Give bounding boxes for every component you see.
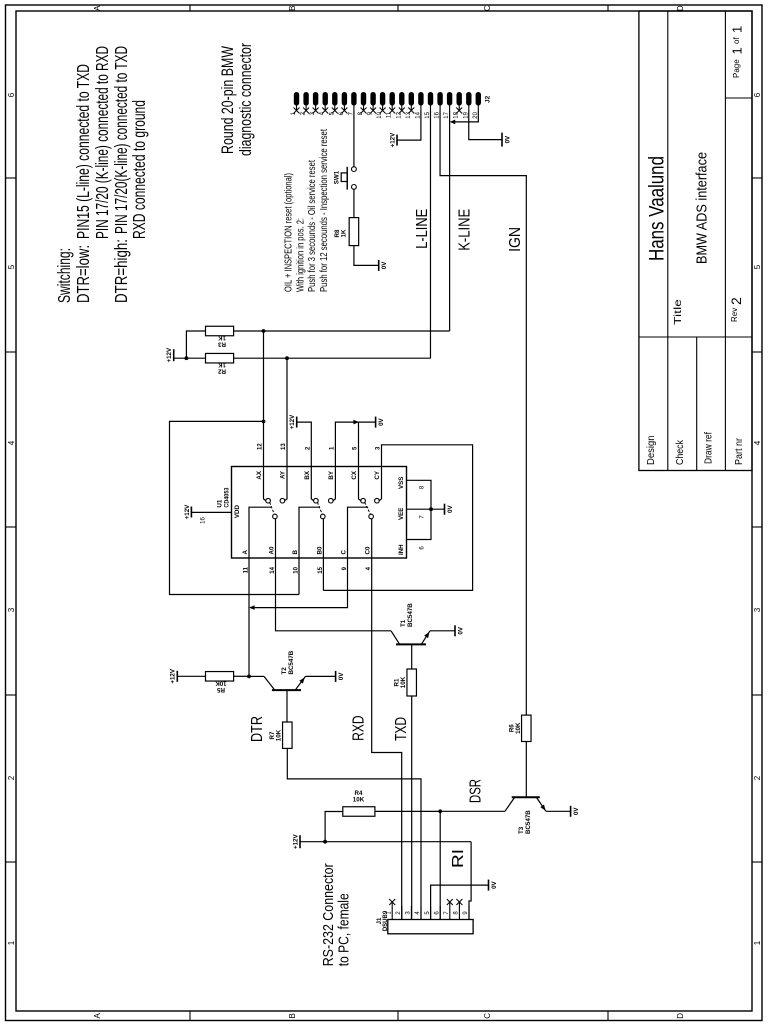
analog switch c select wire	[348, 507, 369, 558]
svg-text:10K: 10K	[215, 679, 227, 686]
svg-text:L-LINE: L-LINE	[414, 209, 431, 249]
svg-text:OIL + INSPECTION reset (option: OIL + INSPECTION reset (optional)	[283, 173, 295, 292]
svg-text:Hans Vaalund: Hans Vaalund	[645, 156, 669, 261]
wire DSR from DSUB pin 6	[439, 811, 441, 919]
resistor R2 1K (L-line pullup)	[206, 353, 234, 363]
analog switch a X contact	[266, 498, 271, 503]
svg-text:to PC, female: to PC, female	[336, 893, 353, 966]
wire J2 pin 20 to K-line junction	[454, 111, 478, 122]
connector J1 pin 9	[463, 906, 469, 920]
svg-text:2: 2	[753, 775, 762, 780]
analog switch b common contact	[321, 514, 326, 519]
svg-text:Part nr: Part nr	[734, 437, 745, 465]
resistor R5 10K	[206, 672, 234, 682]
svg-text:3: 3	[7, 607, 16, 612]
svg-text:Push for 3 secounds - Oil serv: Push for 3 secounds - Oil service reset	[306, 160, 318, 292]
svg-text:0V: 0V	[457, 626, 464, 634]
svg-text:PIN 17/20 (K-line) connected t: PIN 17/20 (K-line) connected to RXD	[92, 46, 112, 239]
svg-text:BY: BY	[328, 470, 335, 479]
svg-text:3: 3	[406, 911, 412, 915]
analog switch b Y contact	[329, 498, 334, 503]
svg-text:VSS: VSS	[398, 477, 405, 489]
svg-text:diagnostic connector: diagnostic connector	[236, 43, 255, 156]
wire C0 common RXD	[372, 558, 402, 920]
junction dot AY / L-line vertical	[285, 356, 289, 360]
wire BX to +12V	[297, 422, 312, 466]
svg-text:DSR: DSR	[468, 779, 485, 803]
wire +12V branch to R4	[325, 812, 343, 842]
junction arrow CX onto BY-ground wire	[353, 420, 359, 425]
wire TXD from R1 to DSUB pin 3	[411, 696, 413, 920]
svg-text:Switching:: Switching:	[54, 248, 74, 303]
svg-text:16: 16	[201, 517, 207, 524]
connector J1 pin 8	[454, 899, 463, 920]
wire INH pin 6 to ground net	[407, 509, 432, 539]
wire SW1 to R8	[353, 189, 355, 217]
junction arrow select C onto select A wire	[249, 605, 255, 610]
wire J2 pin 19 to ground	[469, 111, 502, 140]
svg-text:TXD: TXD	[393, 717, 410, 741]
svg-text:+12V: +12V	[184, 504, 191, 519]
switch SW1 contact right	[352, 167, 357, 172]
analog switch b X contact	[314, 498, 319, 503]
svg-text:CD4053: CD4053	[224, 487, 231, 507]
svg-text:BX: BX	[304, 470, 311, 479]
svg-text:2: 2	[396, 911, 402, 915]
wire K-LINE from J2 pin 17	[449, 111, 451, 332]
analog switch a common contact	[273, 514, 278, 519]
analog switch c X contact	[361, 498, 366, 503]
svg-text:B: B	[288, 1013, 297, 1018]
analog switch c X contact wire	[359, 467, 361, 501]
svg-text:2: 2	[306, 446, 312, 450]
junction dot T2 collector node	[247, 675, 251, 679]
ground 0V at DSUB pin 5	[488, 880, 490, 891]
svg-text:+12V: +12V	[289, 414, 296, 429]
svg-text:CY: CY	[374, 470, 381, 479]
connector J2 pin 4	[320, 92, 329, 115]
svg-text:0V: 0V	[491, 880, 498, 888]
svg-text:4: 4	[415, 911, 421, 915]
connector J1 pin 2	[396, 906, 402, 920]
junction dot R2/R3 feed	[185, 356, 189, 360]
svg-text:DTR: DTR	[249, 716, 266, 742]
resistor R4 10K (DSR pullup)	[343, 807, 375, 817]
svg-text:+12V: +12V	[292, 834, 299, 849]
svg-text:Round 20-pin BMW: Round 20-pin BMW	[218, 46, 237, 154]
junction dot AX / K-line vertical	[262, 329, 266, 333]
ground 0V at T2 emitter	[335, 671, 337, 682]
svg-text:Draw ref: Draw ref	[704, 432, 715, 464]
connector J2 pin 1	[291, 92, 300, 115]
junction dot AX / select-B loop	[262, 420, 266, 424]
svg-text:DTR=high:: DTR=high:	[111, 239, 131, 303]
svg-text:J2: J2	[485, 95, 492, 103]
svg-text:R4: R4	[355, 790, 363, 797]
svg-text:B: B	[288, 6, 297, 11]
transistor T1 BC547B	[396, 643, 426, 645]
ground 0V at T1 emitter	[454, 625, 456, 636]
svg-text:6: 6	[434, 911, 440, 915]
svg-text:Page: Page	[732, 59, 741, 78]
analog switch b Y contact wire	[333, 467, 335, 501]
svg-text:RS-232 Connector: RS-232 Connector	[320, 863, 337, 966]
wire DSUB pin 5 to ground	[431, 885, 489, 919]
svg-text:A: A	[93, 5, 102, 11]
svg-text:BC547B: BC547B	[288, 650, 295, 674]
wire VSS pin 8 to ground net	[407, 480, 432, 509]
wire T2 base to R7	[286, 690, 288, 722]
svg-text:A: A	[93, 1012, 102, 1018]
title block outline	[639, 11, 752, 471]
border zone ticks right edge	[189, 5, 191, 11]
pin 16 VDD wire to +12V	[191, 511, 231, 513]
wire +12V rail down to RI	[300, 841, 471, 843]
analog switch a X contact wire	[264, 467, 266, 501]
connector J2 pin 14	[415, 92, 423, 119]
svg-text:Rev: Rev	[730, 308, 739, 322]
connector J2 pin 3	[310, 92, 319, 115]
ground 0V at T3 emitter	[570, 806, 572, 817]
analog switch c common contact	[369, 514, 374, 519]
svg-text:K-LINE: K-LINE	[457, 209, 474, 251]
connector J1 pin 7	[444, 899, 453, 920]
title block row line 2	[724, 11, 726, 471]
connector J2 pin 19	[463, 92, 471, 119]
junction dot +12V / R4 branch	[323, 840, 327, 844]
transistor T3 BC547B	[512, 796, 540, 798]
svg-text:C: C	[483, 1013, 492, 1019]
wire select C to select A	[254, 558, 348, 608]
svg-text:PIN 17/20(K-line) connected to: PIN 17/20(K-line) connected to TXD	[111, 46, 131, 234]
connector J1 DSUB9 body	[388, 920, 473, 934]
svg-text:5: 5	[425, 911, 431, 915]
svg-text:3: 3	[376, 446, 382, 450]
title block row line 1	[667, 11, 669, 471]
svg-text:0V: 0V	[447, 505, 454, 513]
svg-text:D: D	[676, 5, 685, 11]
svg-text:4: 4	[753, 440, 762, 445]
svg-text:0V: 0V	[378, 417, 385, 425]
svg-text:4: 4	[7, 440, 16, 445]
svg-text:5: 5	[7, 264, 16, 269]
title block vertical divider	[639, 336, 752, 338]
connector J1 pin 1	[386, 899, 395, 920]
resistor R7 10K	[283, 722, 293, 748]
power +12V feeding R2 R3	[173, 349, 175, 361]
svg-text:1: 1	[386, 911, 392, 915]
svg-text:Push for 12 secounds - Inspect: Push for 12 secounds - Inspection servic…	[318, 129, 330, 292]
connector J2 pin 8	[358, 92, 367, 115]
wire R4 to DSR junction	[375, 810, 440, 812]
svg-text:1: 1	[7, 940, 16, 945]
svg-text:10K: 10K	[515, 722, 522, 734]
analog switch b X contact wire	[311, 467, 313, 501]
svg-text:U1: U1	[217, 499, 224, 508]
connector J2 pin 17	[444, 92, 452, 119]
svg-text:0V: 0V	[338, 672, 345, 680]
svg-text:6: 6	[420, 546, 426, 550]
connector J2 pin 9	[368, 92, 377, 115]
wire +12V to R5	[177, 675, 205, 677]
power +12V at J2 pin 14	[396, 135, 398, 146]
switch SW1 contact left	[352, 185, 357, 190]
svg-text:INH: INH	[398, 544, 405, 555]
junction dot DSR node	[438, 809, 442, 813]
connector J2 pin 20	[473, 92, 481, 119]
analog switch c common wire	[371, 519, 373, 558]
power +12V at VDD	[190, 507, 192, 518]
transistor T2 BC547B	[272, 689, 301, 691]
svg-text:Check: Check	[675, 439, 686, 465]
svg-text:IGN: IGN	[507, 227, 524, 252]
svg-text:A0: A0	[269, 546, 276, 554]
svg-text:AY: AY	[280, 470, 287, 479]
svg-text:VDD: VDD	[234, 505, 241, 519]
svg-text:of: of	[732, 37, 741, 44]
svg-text:+12V: +12V	[166, 347, 173, 362]
svg-text:BC547B: BC547B	[525, 810, 532, 834]
resistor R8 1K	[349, 218, 359, 246]
connector J2 pin 5	[329, 92, 338, 115]
svg-text:Design: Design	[646, 436, 657, 466]
svg-text:PIN15 (L-line) connected to TX: PIN15 (L-line) connected to TXD	[73, 64, 93, 239]
connector J2 pin 18	[454, 92, 463, 119]
svg-text:RXD connected to ground: RXD connected to ground	[129, 100, 149, 239]
svg-text:0V: 0V	[573, 807, 580, 815]
connector J1 pin 5	[425, 906, 431, 920]
svg-text:+12V: +12V	[170, 668, 177, 683]
wire CY to B0 loop	[323, 445, 472, 591]
wire RI to DSUB pin 9	[469, 842, 471, 920]
switch SW1 actuator	[346, 167, 348, 190]
svg-text:6: 6	[7, 92, 16, 97]
ground 0V at J2 pin 19	[501, 133, 503, 147]
analog switch b common wire	[322, 519, 324, 558]
svg-text:10K: 10K	[400, 676, 407, 688]
wire K-line pullup vertical	[234, 330, 450, 332]
wire select-B loop	[170, 421, 300, 594]
resistor R6 10K	[522, 715, 532, 741]
wire T1 base to R1	[411, 644, 413, 669]
op-amp U1 CD4053 body	[232, 467, 407, 559]
wire J2 pin 16 to IGN	[440, 111, 526, 716]
wire CX to ground net	[358, 422, 360, 466]
power +12V at BX	[296, 417, 298, 428]
connector J2 pin 7	[348, 92, 356, 115]
wire L-line pullup vertical	[234, 357, 431, 359]
svg-text:B0: B0	[316, 546, 323, 554]
svg-text:T1: T1	[400, 619, 407, 627]
connector J2 pin 11	[387, 92, 396, 118]
connector J2 pin 10	[377, 92, 386, 119]
connector J2 pin 16	[435, 92, 443, 119]
junction arrow pin 20 onto K-line	[450, 120, 456, 125]
svg-text:1K: 1K	[218, 334, 226, 341]
svg-text:1K: 1K	[218, 361, 226, 368]
resistor R1 10K	[407, 669, 417, 696]
svg-text:AX: AX	[256, 470, 263, 479]
svg-text:BMW ADS interface: BMW ADS interface	[695, 152, 711, 264]
analog switch b select wire	[299, 507, 320, 558]
analog switch c Y contact	[375, 498, 380, 503]
svg-text:2: 2	[728, 297, 744, 305]
junction dot VEE ground node	[429, 507, 433, 511]
connector J1 pin 4	[415, 906, 421, 920]
connector J2 pin 15	[425, 92, 433, 119]
svg-text:C: C	[483, 5, 492, 11]
wire J2 pin 14 to +12V	[397, 111, 421, 141]
svg-text:T3: T3	[518, 826, 525, 834]
svg-text:1: 1	[330, 446, 336, 450]
svg-text:6: 6	[753, 92, 762, 97]
svg-text:5: 5	[753, 264, 762, 269]
analog switch a blade	[270, 502, 275, 514]
border zone ticks top edge	[6, 861, 17, 863]
svg-text:VEE: VEE	[398, 508, 405, 520]
wire BY to ground	[335, 422, 375, 466]
border zone ticks bottom edge	[752, 861, 762, 863]
svg-text:RXD: RXD	[351, 715, 368, 741]
svg-text:1: 1	[753, 940, 762, 945]
wire +12V to R2 top	[174, 357, 206, 359]
svg-text:13: 13	[281, 443, 287, 450]
svg-text:C: C	[341, 550, 348, 555]
svg-text:10K: 10K	[276, 729, 283, 741]
wire J2 pin 7 to SW1	[353, 111, 355, 167]
wire R5 to T2 collector node	[234, 675, 249, 677]
wire DTR from R7 to DSUB pin 4	[287, 748, 421, 919]
svg-text:3: 3	[753, 607, 762, 612]
title block page cell divider	[725, 97, 752, 99]
power +12V RI net	[299, 835, 301, 848]
svg-text:DTR=low:: DTR=low:	[73, 245, 93, 303]
svg-text:9: 9	[463, 911, 469, 915]
analog switch b blade	[318, 502, 323, 514]
analog switch a common wire	[275, 519, 277, 558]
wire L-LINE from J2 pin 15	[429, 111, 431, 359]
connector J2 pin 12	[396, 92, 405, 119]
svg-text:C0: C0	[365, 546, 372, 554]
power +12V feeding R5	[176, 671, 178, 682]
svg-text:10K: 10K	[353, 797, 365, 804]
wire VEE pin 7 to ground	[407, 508, 445, 510]
svg-text:+12V: +12V	[389, 132, 396, 147]
wire R8 to ground	[354, 246, 379, 266]
svg-text:With ignition in pos. 2:: With ignition in pos. 2:	[294, 218, 306, 292]
svg-text:A: A	[242, 550, 249, 555]
wire select A to T2 collector node	[248, 558, 250, 676]
ground 0V at VEE	[444, 504, 446, 515]
connector J1 pin 3	[406, 906, 412, 920]
svg-text:RI: RI	[450, 849, 467, 868]
title block check/draw-ref divider	[696, 337, 698, 471]
svg-text:8: 8	[420, 485, 426, 489]
analog switch a Y contact	[280, 498, 285, 503]
wire B0 to CY loop	[322, 558, 324, 590]
connector J1 pin 6	[434, 906, 440, 920]
svg-text:B: B	[292, 550, 299, 555]
svg-text:0V: 0V	[381, 261, 388, 269]
ground 0V at BY/CX	[375, 417, 377, 428]
border zone ticks left edge	[189, 1011, 191, 1021]
svg-text:2: 2	[7, 775, 16, 780]
svg-text:CX: CX	[351, 470, 358, 479]
wire AX to K-line net	[263, 331, 265, 467]
wire AY to L-line net	[286, 358, 288, 466]
ground 0V at R8	[378, 260, 380, 271]
svg-text:BC547B: BC547B	[407, 603, 414, 627]
wire +12V branch to R3 top	[186, 331, 205, 358]
wire A0 common to T1 collector	[276, 558, 392, 631]
connector J2 pin 2	[301, 92, 310, 115]
svg-text:D: D	[676, 1013, 685, 1019]
svg-text:7: 7	[420, 515, 426, 519]
svg-text:1K: 1K	[341, 229, 348, 237]
svg-text:7: 7	[444, 911, 450, 915]
svg-text:8: 8	[454, 911, 460, 915]
analog switch c Y contact wire	[379, 467, 381, 501]
resistor R3 1K (K-line pullup)	[206, 326, 234, 336]
connector J2 pin 13	[406, 92, 415, 119]
svg-text:0V: 0V	[504, 135, 511, 143]
analog switch a select wire	[249, 507, 272, 558]
connector J2 pin 6	[339, 92, 348, 115]
analog switch a Y contact wire	[285, 467, 287, 501]
svg-text:5: 5	[353, 446, 359, 450]
wire B select to loop	[298, 558, 300, 595]
analog switch c blade	[365, 502, 371, 514]
svg-text:1: 1	[730, 26, 745, 33]
svg-text:SW1: SW1	[334, 170, 341, 184]
svg-text:Title: Title	[673, 298, 684, 325]
svg-text:12: 12	[258, 443, 264, 450]
svg-text:T2: T2	[281, 667, 288, 675]
svg-text:1: 1	[730, 47, 745, 54]
